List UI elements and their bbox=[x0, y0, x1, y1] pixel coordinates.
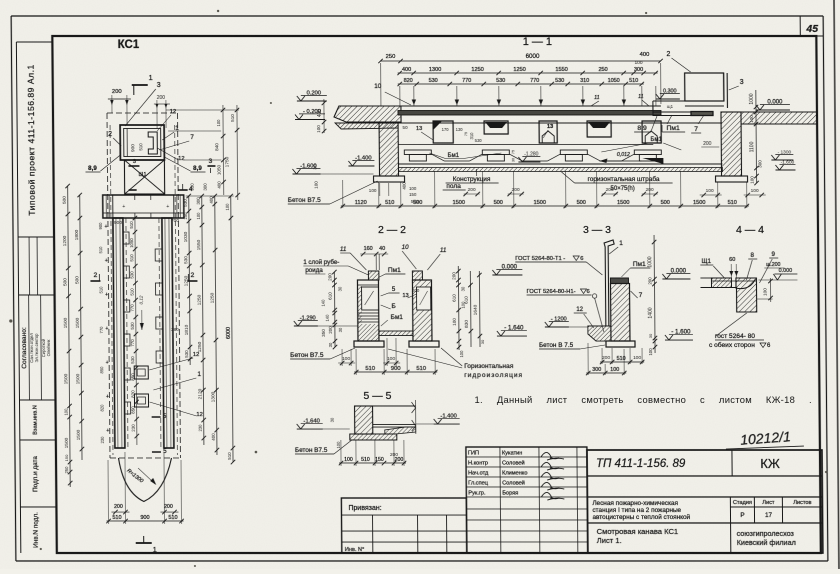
left footing bbox=[374, 176, 405, 182]
beam right end step bbox=[652, 106, 654, 113]
cut mark 2 left bbox=[90, 280, 100, 282]
bottom dim chain 1-1 bbox=[341, 205, 749, 207]
left pit wall bbox=[113, 218, 125, 448]
left apron slab hatched bbox=[334, 106, 401, 122]
right wall hatched bbox=[721, 112, 742, 176]
right chain 3 bbox=[215, 196, 217, 455]
cut mark 3 right bbox=[207, 165, 215, 167]
beam underside line bbox=[398, 122, 722, 124]
cut mark 2 right bbox=[187, 280, 197, 282]
5-5 bottom chain bbox=[339, 462, 406, 464]
niches on right wall bbox=[155, 249, 162, 261]
4-4 corner unit hatched bbox=[736, 278, 757, 312]
niche 2 shallow bbox=[484, 121, 508, 134]
level -1.290 bbox=[294, 325, 318, 327]
portal channel bracket bbox=[148, 132, 157, 154]
2-2 left wall cap bbox=[368, 271, 379, 280]
niche 4 bbox=[587, 121, 611, 137]
bm1 ledges bbox=[404, 150, 431, 155]
left dim chain inner bbox=[80, 195, 82, 460]
scan edge line right bbox=[834, 0, 839, 569]
3-3 footing bbox=[606, 341, 635, 347]
level -1.640 5-5 bbox=[297, 428, 323, 430]
title block: signatures table bbox=[466, 447, 588, 553]
level 0.000 right bbox=[756, 109, 790, 111]
3-3 right dims bbox=[654, 235, 655, 353]
slope arrow interior bbox=[141, 310, 143, 330]
sidebar: podp i data bbox=[20, 506, 56, 508]
sidebar column line bbox=[16, 42, 20, 553]
cut mark 5 upper bbox=[152, 416, 161, 418]
dim row subdivision 2 bbox=[398, 83, 644, 85]
sheet outer border bbox=[11, 15, 823, 17]
collar flange bbox=[103, 195, 184, 218]
level 0.000 3-3 bbox=[662, 278, 690, 280]
ladder box with X brace bbox=[124, 160, 164, 194]
cut mark 3 left bbox=[128, 165, 139, 167]
rubberoid layers left wall bbox=[358, 312, 379, 314]
right chain 2 bbox=[202, 196, 204, 445]
niches on left wall bbox=[123, 232, 129, 244]
level 0.000 2-2 bbox=[492, 274, 522, 276]
level 0.200 bbox=[297, 100, 327, 102]
level -1300 right bbox=[771, 159, 793, 161]
level -1.400 bbox=[348, 165, 374, 167]
sidebar box: project name bbox=[18, 236, 54, 238]
dirt specks bbox=[9, 319, 12, 322]
niche 1 bbox=[433, 121, 453, 143]
niche 5 bbox=[642, 121, 661, 143]
scan grain overlay bbox=[0, 0, 1, 1]
page number 45 box bbox=[799, 16, 801, 36]
sidebar: vzam inv bbox=[20, 439, 56, 441]
level -1200 bbox=[545, 326, 569, 328]
2-2 left dim column bbox=[333, 272, 336, 347]
collar left cap bbox=[103, 195, 113, 218]
3-3 wall hatched bbox=[610, 284, 630, 342]
collar right cap bbox=[174, 195, 184, 218]
level 0.300 bbox=[656, 98, 680, 100]
inner dashed lines along walls bbox=[110, 125, 113, 455]
right footing bbox=[716, 176, 748, 182]
portal inner bbox=[124, 129, 161, 157]
level -1.640 2-2 bbox=[497, 335, 527, 337]
cut mark 5 lower bbox=[152, 451, 161, 453]
dim row 6000 bbox=[381, 60, 661, 62]
apron underside wedge bbox=[335, 123, 398, 129]
floor slab lines bbox=[398, 163, 722, 165]
niche 3 bbox=[539, 121, 557, 143]
horizontal ext lines top right bbox=[166, 109, 239, 111]
right chain 1 bbox=[189, 196, 190, 365]
band bottom line bbox=[398, 144, 653, 146]
5-5 base strip hatched bbox=[350, 434, 397, 440]
section cut mark 1 bottom bbox=[136, 542, 152, 544]
2-2 footings bbox=[354, 341, 384, 347]
dim row subdivision 1 bbox=[398, 72, 658, 74]
level -1.600 left bbox=[293, 173, 321, 175]
sidebar: soglasovano block bbox=[19, 399, 55, 401]
bottom chain 510 900 510 bbox=[107, 520, 184, 522]
floor profile between ledges bbox=[431, 154, 444, 161]
title block: privyazan table bbox=[341, 498, 466, 553]
title block: main stamp bbox=[587, 450, 823, 553]
2-2 right wall cap bbox=[412, 271, 422, 280]
item 12 bracket lower bbox=[134, 394, 148, 407]
5-5 break marks bbox=[412, 402, 416, 413]
pit top beam bbox=[398, 105, 661, 107]
5-5 floor right part bbox=[373, 405, 416, 407]
3-3 angle post bbox=[604, 240, 615, 326]
walls bottom closure bbox=[115, 447, 125, 449]
right dim column bbox=[755, 90, 758, 183]
level -1.400 5-5 bbox=[434, 423, 460, 425]
fuel box item 2 bbox=[685, 73, 724, 101]
3-3 top plate dark bbox=[610, 278, 628, 284]
4-4 right dim 100 bbox=[769, 278, 771, 302]
pit floor slab between walls bbox=[379, 331, 413, 336]
5-5 wall block hatched bbox=[355, 406, 373, 434]
section cut mark 1 top bbox=[132, 84, 148, 86]
level -0.200 bbox=[295, 119, 325, 121]
level -1.600 3-3 bbox=[665, 339, 693, 341]
right wall niche bbox=[417, 287, 431, 310]
left dim chain outer bbox=[68, 186, 71, 487]
dashed outline bbox=[107, 112, 177, 114]
3-3 left ledge step bbox=[588, 326, 611, 341]
5-5 sloped wedge bbox=[385, 427, 416, 434]
bottom rounded end arc R=1300 bbox=[118, 458, 171, 502]
portal outer bbox=[120, 125, 164, 160]
item 12 bracket upper bbox=[134, 366, 148, 379]
4-4 shield part bbox=[711, 278, 731, 288]
bar item 7 bbox=[691, 112, 713, 116]
interior dim chain bbox=[135, 218, 137, 445]
right chain 4 overall bbox=[231, 196, 233, 462]
sidebar empty box dividers bbox=[19, 294, 55, 296]
2-2 right wall bbox=[412, 280, 432, 341]
2-2 right dim columns bbox=[457, 266, 460, 350]
plate Pm1 on step bbox=[653, 112, 691, 116]
3-3 bottom dims bbox=[600, 361, 644, 363]
left wall hatched bbox=[379, 123, 398, 176]
slope arrow 0,012 bbox=[642, 158, 663, 164]
cut mark 4 bbox=[178, 189, 188, 191]
4-4 fillet arc bbox=[735, 279, 755, 289]
right pit wall bbox=[162, 218, 174, 448]
extension lines from dims to slab bbox=[399, 86, 401, 106]
2-2 left wall bbox=[357, 280, 379, 341]
right apron hatched band bbox=[741, 112, 817, 124]
level -1.280 mid bbox=[518, 161, 540, 163]
2-2 bottom chain bbox=[354, 371, 437, 373]
left wall niche bbox=[362, 287, 379, 310]
